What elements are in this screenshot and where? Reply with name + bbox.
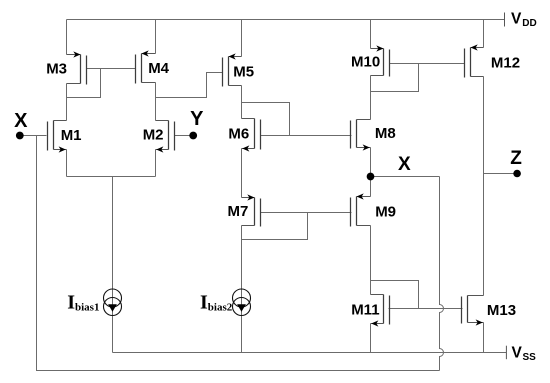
svg-text:SS: SS	[523, 352, 537, 363]
svg-text:bias2: bias2	[208, 301, 233, 313]
svg-text:M12: M12	[491, 55, 520, 72]
svg-text:M1: M1	[61, 127, 82, 144]
svg-text:M4: M4	[148, 60, 169, 77]
svg-text:M5: M5	[233, 63, 254, 80]
svg-text:M9: M9	[375, 204, 396, 221]
svg-text:I: I	[200, 291, 208, 313]
svg-text:M3: M3	[46, 60, 67, 77]
svg-text:M2: M2	[143, 127, 164, 144]
svg-text:V: V	[512, 344, 523, 361]
svg-text:Z: Z	[510, 148, 522, 169]
svg-text:M11: M11	[351, 301, 379, 318]
svg-text:Y: Y	[190, 108, 204, 130]
svg-text:X: X	[14, 110, 28, 132]
svg-text:V: V	[511, 11, 522, 28]
svg-text:bias1: bias1	[75, 301, 99, 313]
svg-text:M6: M6	[228, 125, 249, 142]
svg-text:M8: M8	[375, 125, 396, 142]
svg-text:M10: M10	[351, 54, 380, 71]
svg-text:X: X	[398, 154, 411, 175]
svg-text:M7: M7	[228, 203, 249, 220]
svg-text:DD: DD	[522, 18, 536, 29]
svg-text:M13: M13	[487, 302, 516, 319]
